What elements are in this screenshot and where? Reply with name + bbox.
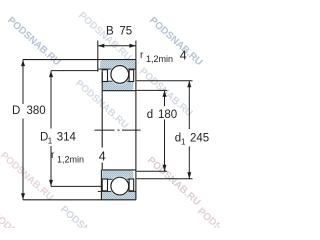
svg-text:75: 75 <box>119 26 132 38</box>
svg-text:B: B <box>106 26 114 38</box>
d arrow up <box>163 90 167 97</box>
D1 arrow down <box>49 180 53 187</box>
OD top surface line + D top extension <box>23 59 136 61</box>
B extension line left <box>97 41 99 60</box>
D1 extension top <box>51 70 98 72</box>
cage box top-left <box>102 70 107 82</box>
outer ring left face (top) <box>97 60 99 72</box>
right side line <box>135 60 137 200</box>
d1 extension top <box>137 80 193 82</box>
outer ring top band <box>98 60 136 84</box>
d extension top <box>137 89 168 91</box>
inner ring left face + bore line upper part <box>101 72 103 148</box>
svg-text:4: 4 <box>99 150 106 164</box>
inner ring top band <box>102 64 134 90</box>
D1 extension bottom <box>51 185 102 187</box>
B arrow left <box>98 44 105 48</box>
svg-text:380: 380 <box>27 105 46 117</box>
D arrow up <box>21 60 25 67</box>
bore bottom edge <box>101 169 135 171</box>
D arrow down <box>21 193 25 200</box>
svg-text:d: d <box>147 109 153 121</box>
svg-text:245: 245 <box>190 132 209 144</box>
B dimension line <box>98 45 136 47</box>
B arrow right <box>129 44 136 48</box>
left bore line lower part <box>101 163 103 170</box>
cage box bottom-right <box>129 179 134 191</box>
outer ring bottom band <box>98 176 136 200</box>
ball top <box>111 66 129 84</box>
d arrow down <box>163 165 167 172</box>
d1 arrow down <box>187 172 191 179</box>
svg-text:D: D <box>12 105 20 117</box>
d extension bottom <box>137 170 168 172</box>
D1 arrow up <box>49 71 53 78</box>
d1 arrow up <box>187 81 191 88</box>
svg-text:180: 180 <box>158 109 177 121</box>
ball bottom <box>111 177 129 195</box>
OD bottom surface line + D bottom extension <box>23 199 136 201</box>
cage box bottom-left <box>102 179 107 191</box>
d1 extension bottom <box>137 178 193 180</box>
svg-text:1,2min: 1,2min <box>57 154 84 164</box>
svg-text:1,2min: 1,2min <box>146 54 173 64</box>
svg-text:1: 1 <box>48 137 53 146</box>
svg-text:4: 4 <box>180 48 187 62</box>
svg-text:314: 314 <box>57 131 77 143</box>
inner ring bottom band <box>102 170 134 196</box>
bore top edge <box>102 90 136 92</box>
svg-text:1: 1 <box>181 137 186 146</box>
cage box top-right <box>129 70 134 82</box>
B extension line right <box>135 41 137 60</box>
bottom section left face <box>100 170 102 200</box>
